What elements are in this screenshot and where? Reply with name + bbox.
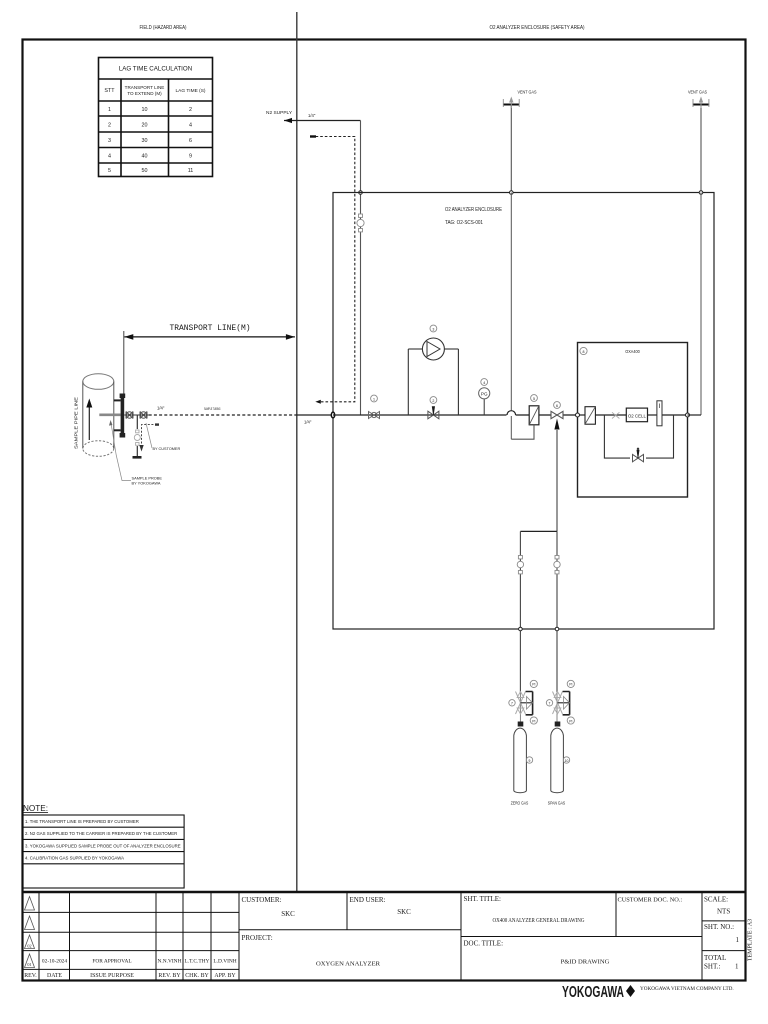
svg-text:7: 7 — [511, 702, 513, 706]
svg-text:3. YOKOGAWA SUPPLIED SAMPLE PR: 3. YOKOGAWA SUPPLIED SAMPLE PROBE OUT OF… — [25, 843, 181, 848]
svg-text:SAMPLE PIPE LINE: SAMPLE PIPE LINE — [74, 397, 79, 449]
svg-text:VENT GAS: VENT GAS — [518, 90, 537, 95]
svg-text:REV.: REV. — [24, 973, 37, 979]
svg-text:END USER:: END USER: — [350, 896, 386, 904]
svg-text:PI: PI — [532, 719, 535, 723]
svg-text:10: 10 — [565, 759, 569, 763]
svg-text:5: 5 — [533, 397, 535, 401]
svg-text:APP. BY: APP. BY — [214, 973, 236, 979]
svg-text:1. THE TRANSPORT LINE IS PREPA: 1. THE TRANSPORT LINE IS PREPARED BY CUS… — [25, 819, 139, 824]
svg-text:4: 4 — [108, 154, 111, 160]
svg-text:N.N.VINH: N.N.VINH — [158, 959, 182, 965]
svg-text:02-10-2024: 02-10-2024 — [42, 959, 67, 965]
svg-text:SHT.:: SHT.: — [704, 963, 720, 971]
svg-text:TO EXTEND (M): TO EXTEND (M) — [127, 91, 162, 96]
svg-text:2: 2 — [189, 107, 192, 113]
svg-text:YOKOGAWA VIETNAM COMPANY LTD.: YOKOGAWA VIETNAM COMPANY LTD. — [640, 986, 734, 992]
svg-text:SCALE:: SCALE: — [704, 896, 728, 904]
svg-text:4: 4 — [189, 123, 192, 129]
svg-text:ZERO GAS: ZERO GAS — [511, 801, 529, 806]
svg-text:SHT. NO.:: SHT. NO.: — [704, 923, 734, 931]
svg-text:PI: PI — [532, 683, 535, 687]
svg-text:FOR APPROVAL: FOR APPROVAL — [92, 959, 131, 965]
svg-text:2: 2 — [432, 399, 434, 403]
svg-text:SAMPLE TUBING: SAMPLE TUBING — [204, 407, 221, 411]
svg-text:SKC: SKC — [397, 908, 411, 916]
svg-text:SPAN GAS: SPAN GAS — [548, 801, 566, 806]
svg-text:6: 6 — [189, 138, 192, 144]
svg-text:OXA400: OXA400 — [625, 349, 640, 355]
svg-text:DATE: DATE — [47, 973, 62, 979]
svg-text:N2 SUPPLY: N2 SUPPLY — [266, 110, 293, 116]
svg-text:20: 20 — [142, 123, 148, 129]
svg-text:YOKOGAWA: YOKOGAWA — [562, 984, 624, 1001]
svg-text:TRANSPORT LINE(M): TRANSPORT LINE(M) — [170, 323, 251, 333]
svg-text:TRANSPORT LINE: TRANSPORT LINE — [125, 85, 165, 90]
svg-text:9: 9 — [529, 759, 531, 763]
svg-text:LAG TIME (S): LAG TIME (S) — [175, 88, 205, 94]
svg-text:FIELD (HAZARD AREA): FIELD (HAZARD AREA) — [140, 25, 187, 31]
svg-text:CUSTOMER DOC. NO.:: CUSTOMER DOC. NO.: — [618, 897, 683, 904]
svg-text:CUSTOMER:: CUSTOMER: — [242, 896, 282, 904]
svg-text:O2 CELL: O2 CELL — [628, 414, 647, 419]
svg-text:9: 9 — [189, 154, 192, 160]
svg-text:PROJECT:: PROJECT: — [242, 934, 273, 942]
svg-text:2. N2 GAS SUPPLIED TO THE CARR: 2. N2 GAS SUPPLIED TO THE CARRIER IS PRE… — [25, 831, 177, 836]
svg-text:4. CALIBRATION GAS SUPPLIED BY: 4. CALIBRATION GAS SUPPLIED BY YOKOGAWA — [25, 856, 124, 861]
svg-text:SKC: SKC — [281, 910, 295, 918]
svg-text:10: 10 — [142, 107, 148, 113]
svg-text:O2 ANALYZER ENCLOSURE (SAFETY: O2 ANALYZER ENCLOSURE (SAFETY AREA) — [490, 25, 585, 31]
svg-text:BY YOKOGAWA: BY YOKOGAWA — [132, 481, 161, 486]
svg-text:30: 30 — [142, 138, 148, 144]
svg-text:11: 11 — [188, 168, 194, 174]
svg-text:OX400 ANALYZER GENERAL DRAWING: OX400 ANALYZER GENERAL DRAWING — [493, 917, 585, 924]
svg-text:6: 6 — [556, 404, 558, 408]
svg-text:3: 3 — [432, 327, 434, 331]
svg-text:1/4": 1/4" — [308, 113, 316, 118]
svg-text:L.T.C.THY: L.T.C.THY — [185, 959, 210, 965]
svg-text:VENT GAS: VENT GAS — [688, 90, 707, 95]
svg-text:2: 2 — [108, 123, 111, 129]
svg-text:PG: PG — [481, 392, 488, 397]
svg-text:1: 1 — [736, 936, 740, 944]
svg-text:STT: STT — [104, 88, 115, 94]
svg-text:LAG TIME CALCULATION: LAG TIME CALCULATION — [119, 66, 192, 73]
svg-text:1: 1 — [373, 397, 375, 401]
svg-text:NTS: NTS — [717, 908, 730, 916]
svg-text:TEMPLATE : A3: TEMPLATE : A3 — [748, 919, 754, 961]
svg-text:BY CUSTOMER: BY CUSTOMER — [153, 447, 181, 451]
svg-text:8: 8 — [583, 350, 585, 354]
svg-text:P&ID DRAWING: P&ID DRAWING — [561, 959, 610, 966]
svg-text:OXYGEN ANALYZER: OXYGEN ANALYZER — [316, 961, 381, 968]
svg-text:4: 4 — [483, 381, 485, 385]
svg-text:SHT. TITLE:: SHT. TITLE: — [464, 895, 502, 903]
svg-text:1: 1 — [108, 107, 111, 113]
svg-text:TOTAL: TOTAL — [704, 954, 726, 962]
svg-text:O2 ANALYZER ENCLOSURE: O2 ANALYZER ENCLOSURE — [445, 207, 502, 213]
svg-text:01: 01 — [27, 962, 31, 967]
svg-text:L.D.VINH: L.D.VINH — [213, 959, 236, 965]
svg-text:1/4": 1/4" — [157, 406, 165, 411]
svg-text:CHK. BY: CHK. BY — [185, 973, 209, 979]
svg-text:ISSUE PURPOSE: ISSUE PURPOSE — [90, 973, 134, 979]
svg-text:REV. BY: REV. BY — [158, 973, 181, 979]
svg-text:PI: PI — [569, 683, 572, 687]
svg-text:40: 40 — [142, 154, 148, 160]
svg-text:NOTE:: NOTE: — [23, 804, 48, 813]
svg-text:DOC. TITLE:: DOC. TITLE: — [464, 940, 504, 948]
svg-text:1/4": 1/4" — [304, 420, 312, 425]
svg-text:PI: PI — [569, 719, 572, 723]
svg-text:1: 1 — [735, 963, 739, 971]
svg-text:3: 3 — [108, 138, 111, 144]
svg-text:5: 5 — [108, 168, 111, 174]
svg-text:TAG: O2-SCS-001: TAG: O2-SCS-001 — [445, 220, 483, 226]
svg-text:7: 7 — [549, 702, 551, 706]
svg-text:02: 02 — [27, 944, 31, 949]
svg-text:50: 50 — [142, 168, 148, 174]
